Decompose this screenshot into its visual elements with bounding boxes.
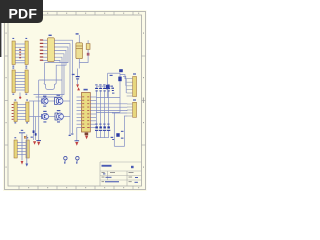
wire Q1 to Q2: [48, 100, 55, 102]
ground arrow red left: [37, 142, 40, 146]
border zone labels: [6, 13, 144, 189]
title block value texts: [103, 173, 138, 182]
border zone tick marks left: [5, 56, 9, 145]
net label near top: [119, 69, 123, 72]
wire below C1: [78, 59, 80, 69]
ground symbol blue below JP4: [25, 164, 28, 167]
schematic sheet paper: [3, 10, 147, 191]
bus wires U2 right to header P2: [96, 104, 127, 116]
IC U2 pin name texts: [82, 96, 89, 128]
top capacitor row C3-C6: [95, 84, 114, 127]
capacitor C1 (electrolytic body): [76, 43, 83, 59]
connector JP3 (2x6 header ladder): [12, 100, 29, 124]
title block logo mark: [131, 166, 134, 168]
connector JP1 (2x7 header ladder): [12, 38, 28, 67]
ground mark below U2 (dark): [85, 133, 89, 136]
label above JP4: [21, 130, 23, 131]
IC U2 (MCU body): [82, 93, 91, 133]
wire top bar above JP4: [19, 132, 25, 134]
power bar symbol left: [36, 140, 41, 142]
decoupling cap C2: [72, 69, 80, 85]
border zone tick marks top: [19, 12, 133, 16]
polarity mark Y1: [87, 53, 90, 56]
IC U2 left pins: [77, 97, 82, 128]
test point TP1: [64, 157, 67, 163]
ground arrow red below power bar: [75, 142, 78, 146]
diode D1 on right branch: [118, 77, 121, 82]
power bar symbol below U2 left: [75, 140, 80, 142]
border zone tick marks right: [142, 56, 146, 145]
bottom capacitor row C7-C10: [95, 124, 110, 138]
power marker red dot: [19, 97, 21, 99]
ground arrow red below verticals: [33, 141, 36, 145]
resistor loop upper right: [96, 69, 123, 112]
test point TP2: [76, 157, 79, 163]
sheet inner border: [8, 15, 142, 186]
svg-text:PDF: PDF: [8, 6, 37, 22]
title block title text: [102, 165, 112, 167]
IC U2 right pins: [90, 97, 96, 128]
crystal Y1 (small body): [86, 44, 90, 50]
wire Q4 out: [63, 116, 70, 118]
bus end labels: [69, 135, 71, 136]
small part on JP4 top: [24, 136, 27, 138]
ground arrow below JP4 (red): [21, 161, 24, 165]
part on left branch: [106, 85, 110, 89]
wire from JP3 to Q3: [29, 116, 42, 118]
connector J1 (vertical header): [40, 35, 55, 62]
transistor row 2: [29, 110, 70, 123]
wire JP2 to power: [19, 93, 21, 97]
bus wires from J1 right side: [34, 40, 73, 135]
transistor Q3: [41, 114, 43, 119]
wire through JP4 right: [26, 135, 28, 164]
connector JP4 (2x5 header ladder): [14, 137, 29, 158]
sheet outer border: [5, 12, 146, 190]
PDF badge: [0, 0, 43, 23]
wire above Y1: [87, 40, 89, 43]
vertical wire to power symbol: [38, 80, 40, 140]
border zone tick marks bottom: [19, 186, 133, 190]
title block frame: [100, 162, 142, 186]
PDF badge tail line: [0, 23, 1, 57]
wire from JP3 to Q1: [29, 100, 42, 102]
connector JP2 (2x7 header ladder): [12, 68, 28, 95]
cap marks on verticals: [33, 130, 35, 133]
wire loop above transistors: [44, 83, 56, 89]
title block size/number/revision labels: [102, 172, 134, 182]
labels below row 2: [43, 121, 46, 122]
transistor Q4 with base box: [55, 113, 58, 120]
power arrow above U2 (red): [77, 87, 80, 90]
header P1 (right, upper): [120, 73, 137, 96]
wire Q3 to Q4: [49, 116, 56, 118]
header P2 (right, lower): [127, 99, 137, 117]
wire Q2 out: [63, 100, 70, 102]
vertical wires below transistors with caps: [33, 101, 35, 140]
capacitor C1 label: [76, 33, 79, 34]
ground arrow below U2 (red): [85, 136, 88, 140]
wire through JP4 left: [21, 133, 23, 161]
wire from Y1 down and left: [79, 49, 88, 62]
horizontal wire above transistors: [39, 79, 62, 81]
transistor Q1: [41, 98, 43, 103]
wire from U2 bottom-left pin down: [76, 128, 78, 141]
transistor Q2 with base box: [55, 98, 58, 105]
IC U2 designator: [84, 89, 88, 91]
wire to C1: [78, 35, 80, 43]
ground arrow below C2 (red): [76, 84, 79, 87]
resistor loop lower right: [111, 113, 125, 146]
transistor row 1: [29, 95, 70, 107]
